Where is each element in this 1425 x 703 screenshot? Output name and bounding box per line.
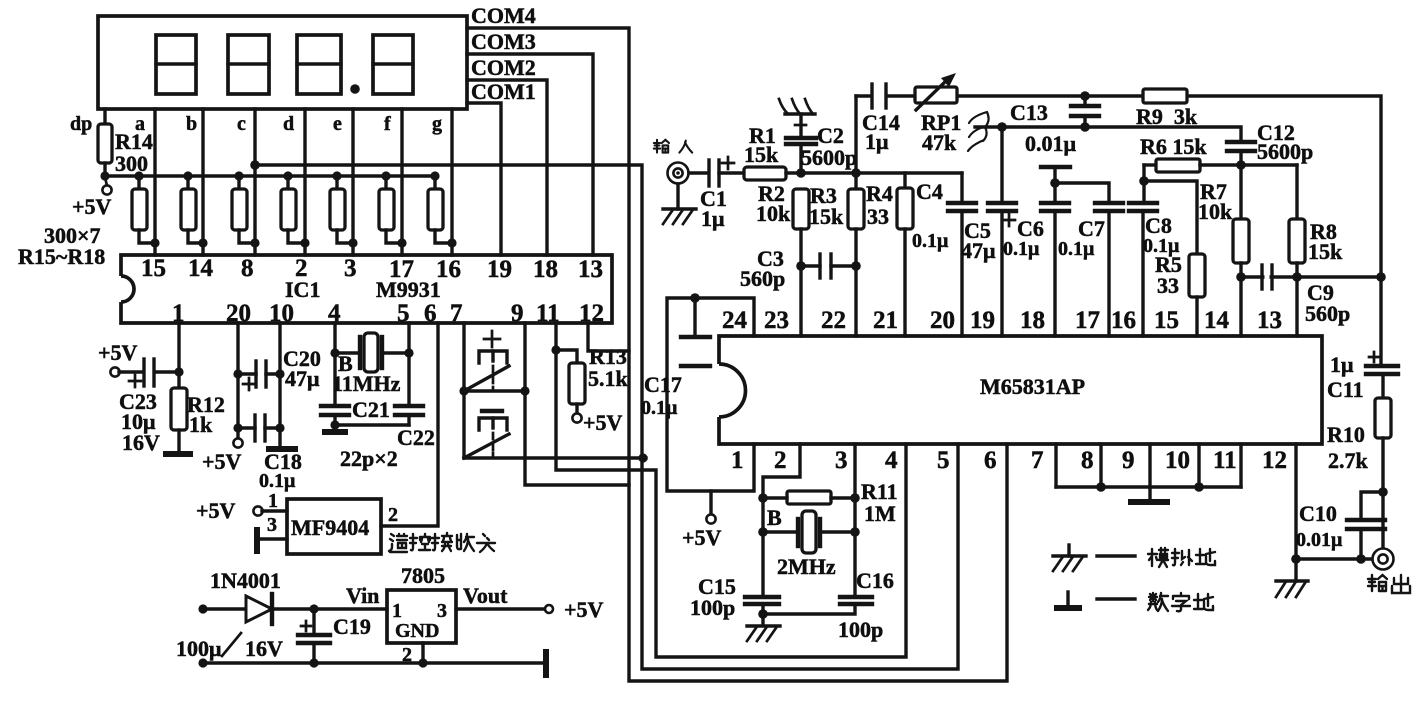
- regulator 7805 box: [387, 590, 456, 643]
- node dot C21 gnd: [330, 420, 339, 429]
- svg-text:15k: 15k: [1308, 239, 1343, 264]
- svg-text:2: 2: [295, 255, 308, 282]
- resistor R4: [897, 173, 913, 336]
- svg-text:1μ: 1μ: [1330, 352, 1354, 377]
- node dots crystal: [330, 348, 339, 357]
- wire IC1 pin7 column: [462, 323, 465, 458]
- key switch S2 minus: [464, 411, 509, 458]
- svg-text:15k: 15k: [744, 142, 779, 167]
- svg-text:3: 3: [437, 600, 447, 622]
- svg-text:R4: R4: [866, 181, 893, 206]
- wire C15/C16 tie: [763, 605, 855, 614]
- node dots gnd bus: [1096, 482, 1106, 492]
- svg-text:+5V: +5V: [98, 340, 138, 365]
- resistor R2: [793, 189, 809, 336]
- svg-text:C22: C22: [397, 425, 435, 450]
- svg-text:Vout: Vout: [463, 583, 508, 608]
- wire ground rail: [203, 661, 545, 664]
- svg-text:1M: 1M: [864, 501, 896, 526]
- op IC1 M9931 box: [121, 255, 612, 323]
- capacitor C9: [1262, 265, 1272, 289]
- svg-text:560p: 560p: [740, 266, 785, 291]
- wire IC1 pin9 column to key line: [525, 323, 629, 485]
- digital ground sym mid: [1041, 167, 1070, 183]
- diode 1N4001: [203, 594, 387, 624]
- svg-text:2.7k: 2.7k: [1328, 448, 1369, 473]
- wire segment a column: [153, 109, 156, 255]
- C17 loop wire: [667, 298, 754, 491]
- resistor R14: [98, 109, 112, 176]
- svg-text:COM1: COM1: [471, 79, 536, 104]
- capacitor C21: [321, 406, 349, 425]
- svg-text:2: 2: [388, 504, 398, 526]
- node dot C6 top: [1050, 178, 1060, 188]
- svg-text:17: 17: [1075, 307, 1100, 334]
- capacitor C3: [801, 254, 856, 278]
- capacitor C12: [1227, 142, 1255, 219]
- svg-text:18: 18: [1020, 307, 1045, 334]
- wire COM2 to IC1 pin18: [467, 80, 547, 255]
- node dot C13 top: [1080, 91, 1090, 101]
- legend analog ground symbol: [1053, 545, 1086, 571]
- node dot pin1/C23: [174, 367, 183, 376]
- svg-text:1N4001: 1N4001: [210, 568, 281, 593]
- svg-text:10k: 10k: [756, 201, 791, 226]
- ground input: [663, 184, 696, 224]
- svg-text:5600p: 5600p: [1257, 139, 1313, 164]
- ground flag rail end: [543, 649, 549, 678]
- svg-text:g: g: [432, 113, 442, 135]
- svg-text:6: 6: [424, 300, 437, 327]
- svg-text:Vin: Vin: [346, 583, 379, 608]
- terminal +5V display: [102, 177, 111, 195]
- svg-text:R6 15k: R6 15k: [1140, 134, 1207, 159]
- wire IC1 pin20 column: [236, 323, 239, 439]
- terminal +5V C23: [110, 367, 119, 376]
- antenna ground C2: [779, 99, 815, 114]
- wire segment-c tap to key matrix: [255, 165, 958, 669]
- node dots R11: [758, 493, 768, 503]
- key switch S1 plus: [464, 331, 525, 391]
- wire pin12 down: [1294, 444, 1297, 581]
- svg-text:7805: 7805: [401, 563, 445, 588]
- svg-text:3: 3: [344, 255, 357, 282]
- svg-text:15: 15: [141, 255, 166, 282]
- svg-text:1: 1: [268, 490, 278, 512]
- svg-text:8: 8: [241, 255, 254, 282]
- svg-text:f: f: [384, 113, 391, 135]
- svg-text:16: 16: [1111, 307, 1136, 334]
- wire IC1 pin1 column: [177, 323, 180, 388]
- svg-text:24: 24: [722, 307, 748, 334]
- node dot R13 tap: [551, 345, 560, 354]
- wire R6 left bend: [1142, 165, 1145, 181]
- capacitor C5: [988, 127, 1016, 336]
- svg-text:9: 9: [1122, 447, 1135, 474]
- svg-text:14: 14: [188, 255, 214, 282]
- svg-text:22: 22: [821, 307, 846, 334]
- svg-text:0.1μ: 0.1μ: [1003, 238, 1040, 260]
- svg-text:13: 13: [578, 256, 603, 283]
- label remote receiver (CJK) 遥控接收头: [389, 533, 495, 552]
- svg-text:COM3: COM3: [471, 29, 536, 54]
- svg-text:23: 23: [764, 307, 789, 334]
- capacitor C18: [238, 415, 280, 441]
- terminal +5V pin20: [233, 438, 242, 447]
- svg-text:9: 9: [511, 300, 524, 327]
- wire COM4 to pin12/switch net: [467, 28, 1007, 681]
- svg-text:21: 21: [873, 307, 898, 334]
- node dots ground rail: [198, 658, 207, 667]
- svg-text:b: b: [186, 113, 197, 135]
- svg-text:33: 33: [867, 204, 889, 229]
- wire segment b column: [201, 109, 204, 255]
- svg-text:C10: C10: [1299, 501, 1337, 526]
- svg-text:3: 3: [267, 514, 277, 536]
- wire IC1 pin11 column long run: [556, 323, 906, 657]
- capacitor C23: [129, 359, 154, 387]
- node dots diode line: [198, 604, 207, 613]
- ground bar C21: [322, 425, 348, 432]
- digit 3: [297, 35, 341, 94]
- capacitor C16: [840, 597, 872, 604]
- node dot C10 out: [1356, 554, 1366, 564]
- wire input to C1: [689, 171, 707, 174]
- svg-text:C11: C11: [1327, 377, 1364, 402]
- node dot C8 top: [1139, 176, 1149, 186]
- wiper lead RP1: [968, 112, 989, 151]
- svg-text:3: 3: [835, 447, 848, 474]
- svg-text:C21: C21: [352, 397, 390, 422]
- wire output rail: [1296, 557, 1373, 560]
- crystal B 2MHz: [763, 511, 855, 553]
- wire segment f column: [400, 109, 403, 255]
- resistor R10: [1375, 398, 1391, 549]
- svg-text:8: 8: [1081, 447, 1094, 474]
- terminal +5V MF9404: [253, 506, 287, 515]
- resistor R15 (a): [132, 171, 160, 247]
- node dot C13 bottom: [1080, 122, 1090, 132]
- node dot C12/R7: [1236, 160, 1246, 170]
- capacitor C10: [1347, 492, 1385, 559]
- svg-text:47μ: 47μ: [961, 238, 996, 263]
- terminal +5V loop: [706, 491, 715, 524]
- digit 1: [156, 35, 196, 94]
- svg-text:5: 5: [937, 447, 950, 474]
- svg-text:GND: GND: [395, 620, 439, 642]
- IC MF9404 box: [287, 499, 381, 554]
- svg-text:C19: C19: [333, 614, 371, 639]
- wire switches bottom: [464, 456, 646, 459]
- wire C1 to R1: [719, 171, 744, 174]
- capacitor C8: [1129, 181, 1157, 336]
- svg-text:C16: C16: [856, 568, 894, 593]
- resistor (e): [330, 171, 358, 247]
- label analog ground (CJK) 模拟地: [1148, 548, 1215, 567]
- svg-text:+5V: +5V: [682, 525, 722, 550]
- svg-text:17: 17: [389, 256, 414, 283]
- label input (CJK) 输入: [654, 140, 692, 153]
- wire segment d column: [303, 109, 306, 255]
- node dot C15 gnd: [758, 609, 768, 619]
- capacitor C6: [1041, 183, 1069, 336]
- svg-text:0.01μ: 0.01μ: [1296, 529, 1343, 551]
- resistor R1: [744, 167, 786, 180]
- svg-text:0.1μ: 0.1μ: [641, 397, 678, 419]
- legend dash analog: [1097, 554, 1135, 557]
- svg-text:0.01μ: 0.01μ: [1025, 131, 1077, 156]
- digit 2: [228, 35, 269, 94]
- svg-text:1: 1: [731, 447, 744, 474]
- wire IC1 pin4 column: [333, 323, 336, 405]
- resistor R3: [848, 173, 864, 336]
- svg-text:+5V: +5V: [564, 597, 604, 622]
- wire segment c column: [253, 109, 256, 255]
- svg-text:15k: 15k: [809, 204, 844, 229]
- wire top rail y96: [856, 96, 1381, 364]
- svg-text:c: c: [237, 113, 246, 135]
- wire R3 node up to C14: [854, 96, 857, 173]
- svg-text:300: 300: [115, 151, 148, 176]
- svg-text:2MHz: 2MHz: [777, 554, 836, 579]
- digital gnd bus pins 8-11: [1056, 444, 1241, 502]
- resistor R8: [1289, 165, 1305, 336]
- capacitor C15: [745, 597, 779, 625]
- svg-text:19: 19: [487, 256, 512, 283]
- legend digital ground symbol: [1054, 592, 1082, 608]
- svg-text:MF9404: MF9404: [291, 515, 369, 540]
- output connector: [1373, 549, 1394, 570]
- svg-text:B: B: [767, 505, 782, 530]
- svg-text:COM4: COM4: [471, 3, 536, 28]
- node dot R10/C10: [1378, 487, 1388, 497]
- svg-text:20: 20: [930, 307, 955, 334]
- node dots C9 rail: [1236, 272, 1246, 282]
- node dot key bus: [638, 453, 647, 462]
- svg-text:R10: R10: [1327, 422, 1365, 447]
- svg-text:C4: C4: [916, 179, 943, 204]
- capacitor C20: [238, 361, 280, 390]
- decimal point: [350, 84, 360, 94]
- wire IC1 pin5 column: [407, 323, 410, 405]
- svg-text:6: 6: [984, 447, 997, 474]
- resistor R13: [556, 350, 585, 423]
- svg-text:18: 18: [533, 256, 558, 283]
- node dot A: [796, 168, 806, 178]
- svg-text:1μ: 1μ: [865, 129, 889, 154]
- node dots crystal 2MHz: [758, 527, 768, 537]
- svg-text:14: 14: [1204, 307, 1230, 334]
- resistor R5: [1144, 181, 1205, 336]
- svg-text:1k: 1k: [189, 412, 213, 437]
- capacitor C2: [786, 114, 816, 173]
- ground bar pin10: [266, 446, 298, 452]
- digit 4: [373, 35, 413, 94]
- wire IC1 pin10 column: [278, 323, 281, 446]
- svg-text:0.1μ: 0.1μ: [1143, 235, 1180, 257]
- svg-text:+5V: +5V: [583, 410, 623, 435]
- capacitor C14: [872, 84, 886, 108]
- svg-text:0.1μ: 0.1μ: [1058, 238, 1095, 260]
- resistor (f): [379, 171, 407, 247]
- wire COM1 to IC1 pin19: [467, 103, 501, 255]
- node dot C5 top: [997, 122, 1007, 132]
- svg-text:47μ: 47μ: [285, 366, 320, 391]
- node dot pin12/C10: [1291, 554, 1301, 564]
- svg-text:0.1μ: 0.1μ: [259, 470, 296, 492]
- svg-text:12: 12: [579, 300, 604, 327]
- resistor (d): [281, 171, 310, 247]
- wire COM3 to IC1 pin13: [467, 54, 593, 255]
- input connector: [668, 163, 689, 184]
- wire 7805 pin2 stem: [421, 643, 424, 663]
- resistor R11: [763, 491, 855, 504]
- wire segment g column: [450, 109, 453, 255]
- ground pin12: [1276, 581, 1308, 597]
- wire pin3 column: [853, 444, 856, 596]
- ground bar R12: [163, 451, 193, 457]
- resistor (c): [232, 171, 260, 247]
- svg-text:560p: 560p: [1305, 301, 1350, 326]
- svg-text:e: e: [333, 113, 342, 135]
- svg-text:16: 16: [436, 256, 461, 283]
- wire IC1 pin6 to MF9404 pin2: [381, 323, 438, 526]
- svg-text:0.1μ: 0.1μ: [912, 230, 949, 252]
- svg-text:11: 11: [1213, 447, 1237, 474]
- label output (CJK) 输出: [1368, 575, 1410, 593]
- svg-text:R15~R18: R15~R18: [18, 244, 105, 269]
- node dots S1: [459, 386, 468, 395]
- svg-text:C17: C17: [644, 372, 682, 397]
- capacitor C17: [681, 298, 710, 366]
- svg-text:11MHz: 11MHz: [332, 371, 401, 396]
- svg-text:5.1k: 5.1k: [588, 366, 629, 391]
- svg-text:+5V: +5V: [202, 449, 242, 474]
- wire 7805 out: [456, 605, 553, 613]
- resistor R12: [171, 388, 187, 452]
- node dot seg-c tap: [250, 160, 260, 170]
- node dot R3 top: [851, 168, 861, 178]
- svg-text:2: 2: [774, 447, 787, 474]
- svg-text:15: 15: [1154, 307, 1179, 334]
- svg-text:10k: 10k: [1198, 199, 1233, 224]
- svg-text:16V: 16V: [245, 636, 283, 661]
- svg-text:33: 33: [1157, 273, 1179, 298]
- svg-text:+5V: +5V: [72, 194, 112, 219]
- ground C15: [747, 626, 780, 641]
- crystal B 11MHz: [335, 333, 409, 372]
- svg-text:1: 1: [392, 600, 402, 622]
- legend dash digital: [1097, 597, 1135, 600]
- node dot C17: [690, 293, 700, 303]
- svg-text:d: d: [283, 113, 294, 135]
- svg-text:dp: dp: [70, 113, 92, 135]
- svg-text:100p: 100p: [838, 617, 883, 642]
- +5V bus wire: [105, 176, 435, 189]
- svg-text:7: 7: [1031, 447, 1044, 474]
- resistor (b): [181, 171, 208, 247]
- node dot R14 bus: [100, 171, 109, 180]
- svg-text:19: 19: [970, 307, 995, 334]
- svg-text:22p×2: 22p×2: [340, 446, 398, 471]
- svg-text:12: 12: [1262, 447, 1287, 474]
- node dots C18: [233, 423, 242, 432]
- svg-text:C13: C13: [1010, 100, 1048, 125]
- svg-text:100p: 100p: [690, 595, 735, 620]
- wire IC1 pin12 jog to COM4: [588, 323, 629, 351]
- wire C21/C22 bottoms: [335, 423, 409, 426]
- svg-text:COM2: COM2: [471, 55, 536, 80]
- capacitor C7: [1095, 203, 1123, 336]
- op M65831AP box: [719, 336, 1322, 444]
- wire C6/C7 tie: [1055, 183, 1109, 202]
- resistor R6: [1144, 159, 1297, 172]
- svg-text:5600p: 5600p: [801, 145, 857, 170]
- wire R1 to node A: [786, 171, 962, 174]
- capacitor C1: [709, 157, 734, 186]
- display module box: [98, 16, 467, 109]
- potentiometer RP1: [915, 73, 957, 110]
- svg-text:13: 13: [1257, 307, 1282, 334]
- wire C23 left: [119, 370, 143, 373]
- label digital ground (CJK) 数字地: [1148, 593, 1213, 611]
- resistor R7: [1233, 219, 1249, 336]
- svg-text:R9 3k: R9 3k: [1136, 104, 1198, 129]
- capacitor C19: [298, 609, 330, 663]
- svg-text:100μ: 100μ: [176, 636, 222, 661]
- wire C9 rail y277: [1241, 275, 1381, 278]
- svg-text:7: 7: [450, 300, 463, 327]
- wire wiper rail y127: [975, 127, 1241, 140]
- capacitor C4: [948, 173, 976, 336]
- resistor R9: [1143, 89, 1187, 103]
- capacitor C11: [1366, 352, 1398, 398]
- svg-text:16V: 16V: [122, 430, 160, 455]
- wire C23 to pin1 column: [156, 370, 179, 373]
- capacitor C22: [395, 406, 423, 425]
- svg-text:1μ: 1μ: [701, 206, 725, 231]
- capacitor C13: [1071, 96, 1099, 127]
- node dots C20: [233, 369, 242, 378]
- svg-text:10: 10: [1165, 447, 1190, 474]
- wire segment e column: [351, 109, 354, 255]
- svg-text:4: 4: [885, 447, 898, 474]
- ground flag MF9404 pin3: [257, 527, 287, 554]
- svg-text:+5V: +5V: [196, 498, 236, 523]
- wire pin2 jog: [763, 444, 800, 596]
- svg-text:M65831AP: M65831AP: [980, 374, 1085, 399]
- node dots C3: [796, 261, 806, 271]
- resistor (g): [428, 171, 457, 247]
- svg-text:47k: 47k: [922, 130, 957, 155]
